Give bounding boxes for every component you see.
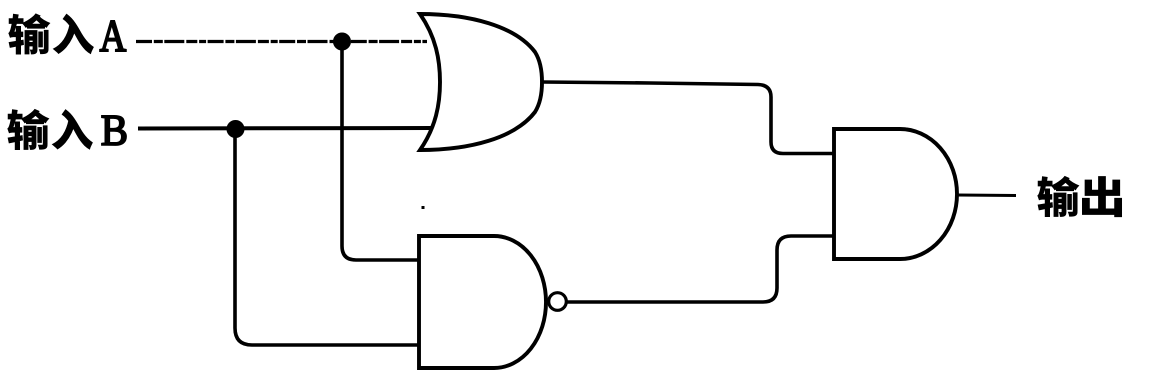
wire NAND output to AND input 2	[567, 236, 833, 302]
label input A "输入A"	[8, 13, 126, 54]
wire AND output	[957, 194, 1016, 198]
label output "输出"	[1037, 176, 1122, 217]
and-gate U3	[834, 129, 957, 259]
or-gate U1	[420, 14, 542, 150]
wire branch B down to NAND input 2	[235, 129, 418, 345]
node junction A	[333, 33, 351, 51]
node junction B	[227, 120, 245, 138]
wire branch A down to NAND input 1	[342, 42, 418, 261]
wire input B	[138, 126, 432, 131]
wire OR output to AND input 1	[542, 82, 833, 154]
wire input A (dashed scanned line)	[136, 40, 427, 43]
label input B "输入B"	[7, 109, 126, 150]
nand-gate U2	[419, 236, 546, 368]
nand output bubble	[549, 293, 567, 311]
